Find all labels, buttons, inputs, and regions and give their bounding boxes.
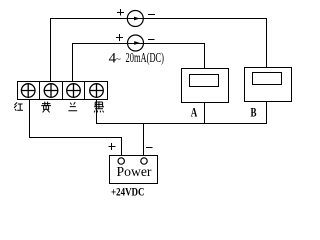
meter B display window: [253, 73, 282, 85]
CS1 minus sign: [148, 14, 155, 16]
wire loop1 right vertical to meter B top: [266, 18, 268, 68]
current source CS2 arrow: [134, 41, 140, 45]
CS2 minus sign: [148, 39, 155, 41]
power minus sign: [146, 147, 153, 149]
CS1 plus sign: [117, 9, 124, 16]
wire loop2 left vertical to terminal 3: [72, 43, 74, 82]
power plus sign: [109, 143, 116, 150]
meter B box: [245, 68, 292, 102]
label huang (yellow): [41, 102, 51, 113]
current source CS1 circle: [127, 11, 143, 27]
svg-text:+24VDC: +24VDC: [111, 187, 145, 199]
wire meter B bottom: [266, 101, 268, 124]
svg-text:20mA(DC): 20mA(DC): [126, 50, 165, 65]
svg-text:A: A: [191, 105, 198, 120]
wire power plus vertical: [121, 137, 123, 156]
meter A display window: [190, 75, 219, 87]
wire loop1 top horizontal: [50, 18, 267, 20]
wire power minus vertical: [143, 123, 145, 156]
wire red terminal down: [29, 99, 31, 138]
svg-text:4: 4: [109, 51, 117, 67]
power terminal circle minus: [141, 158, 147, 164]
wire meter A bottom: [204, 102, 206, 124]
CS2 plus sign: [116, 34, 123, 41]
power terminal circle plus: [118, 158, 124, 164]
terminal screw 4: [90, 84, 104, 98]
label hei (black): [94, 102, 104, 112]
wire red to power plus horizontal: [29, 137, 122, 139]
wire loop2 horizontal: [72, 43, 205, 45]
terminal block outline: [18, 82, 108, 100]
terminal screw 2: [44, 84, 58, 98]
wire loop2 right vertical to meter A top: [204, 43, 206, 69]
wire black terminal down: [96, 99, 98, 123]
terminal block dividers: [40, 81, 85, 99]
label hong (red): [14, 102, 23, 110]
current source CS1 arrow: [134, 17, 140, 21]
label lan (blue): [68, 102, 77, 111]
wire loop1 left vertical to terminal 2: [50, 18, 52, 82]
terminal screw 1: [21, 84, 35, 98]
svg-text:B: B: [251, 105, 257, 120]
terminal screw 3: [67, 84, 81, 98]
wire bottom bus horizontal: [96, 123, 267, 125]
svg-text:Power: Power: [117, 165, 152, 180]
meter A box: [182, 69, 229, 103]
current source CS2 circle: [128, 35, 144, 51]
power supply box: [110, 156, 158, 184]
